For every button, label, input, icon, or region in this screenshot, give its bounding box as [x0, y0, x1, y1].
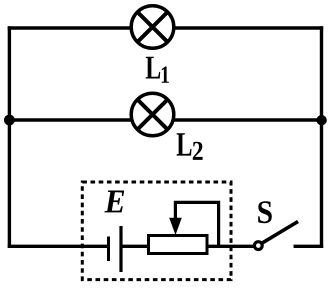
switch S: pivot circle — [254, 242, 262, 250]
wire: middle row right of L2 — [172, 118, 322, 121]
wire: switch stub to right vertical — [294, 245, 324, 248]
wire: bottom row from left vertical to battery — [8, 245, 108, 248]
lamp L2 (circle with cross) — [131, 93, 174, 136]
battery E: short plate (negative) — [107, 237, 110, 262]
wire: top row right of L1 — [173, 26, 323, 29]
wire: rheostat to switch — [207, 245, 254, 248]
rheostat wiper: stem and connection wire to right terminal — [175, 202, 218, 246]
switch S: lever — [262, 222, 298, 244]
wire: battery to rheostat — [122, 245, 148, 248]
wire: left vertical — [8, 26, 11, 247]
lamp L1 (circle with cross) — [131, 6, 174, 49]
label L1: subscript 1 — [162, 66, 169, 82]
battery E: long plate (positive) — [119, 226, 122, 272]
rheostat body (resistor box) — [149, 236, 208, 254]
wire: top row left of L1 — [8, 26, 132, 29]
wire: middle row left of L2 — [9, 118, 133, 121]
label E (battery emf) — [104, 191, 124, 213]
label L2: letter L — [177, 133, 192, 155]
label S (switch) — [258, 201, 272, 223]
wire: right vertical — [320, 26, 323, 248]
node: junction dot left (L2 row) — [4, 115, 15, 126]
label L1: letter L — [146, 57, 161, 79]
rheostat wiper: arrow head — [169, 218, 182, 235]
label L2: subscript 2 — [193, 142, 203, 160]
dashed box around battery and rheostat — [82, 182, 231, 280]
node: junction dot right (L2 row) — [316, 115, 326, 125]
